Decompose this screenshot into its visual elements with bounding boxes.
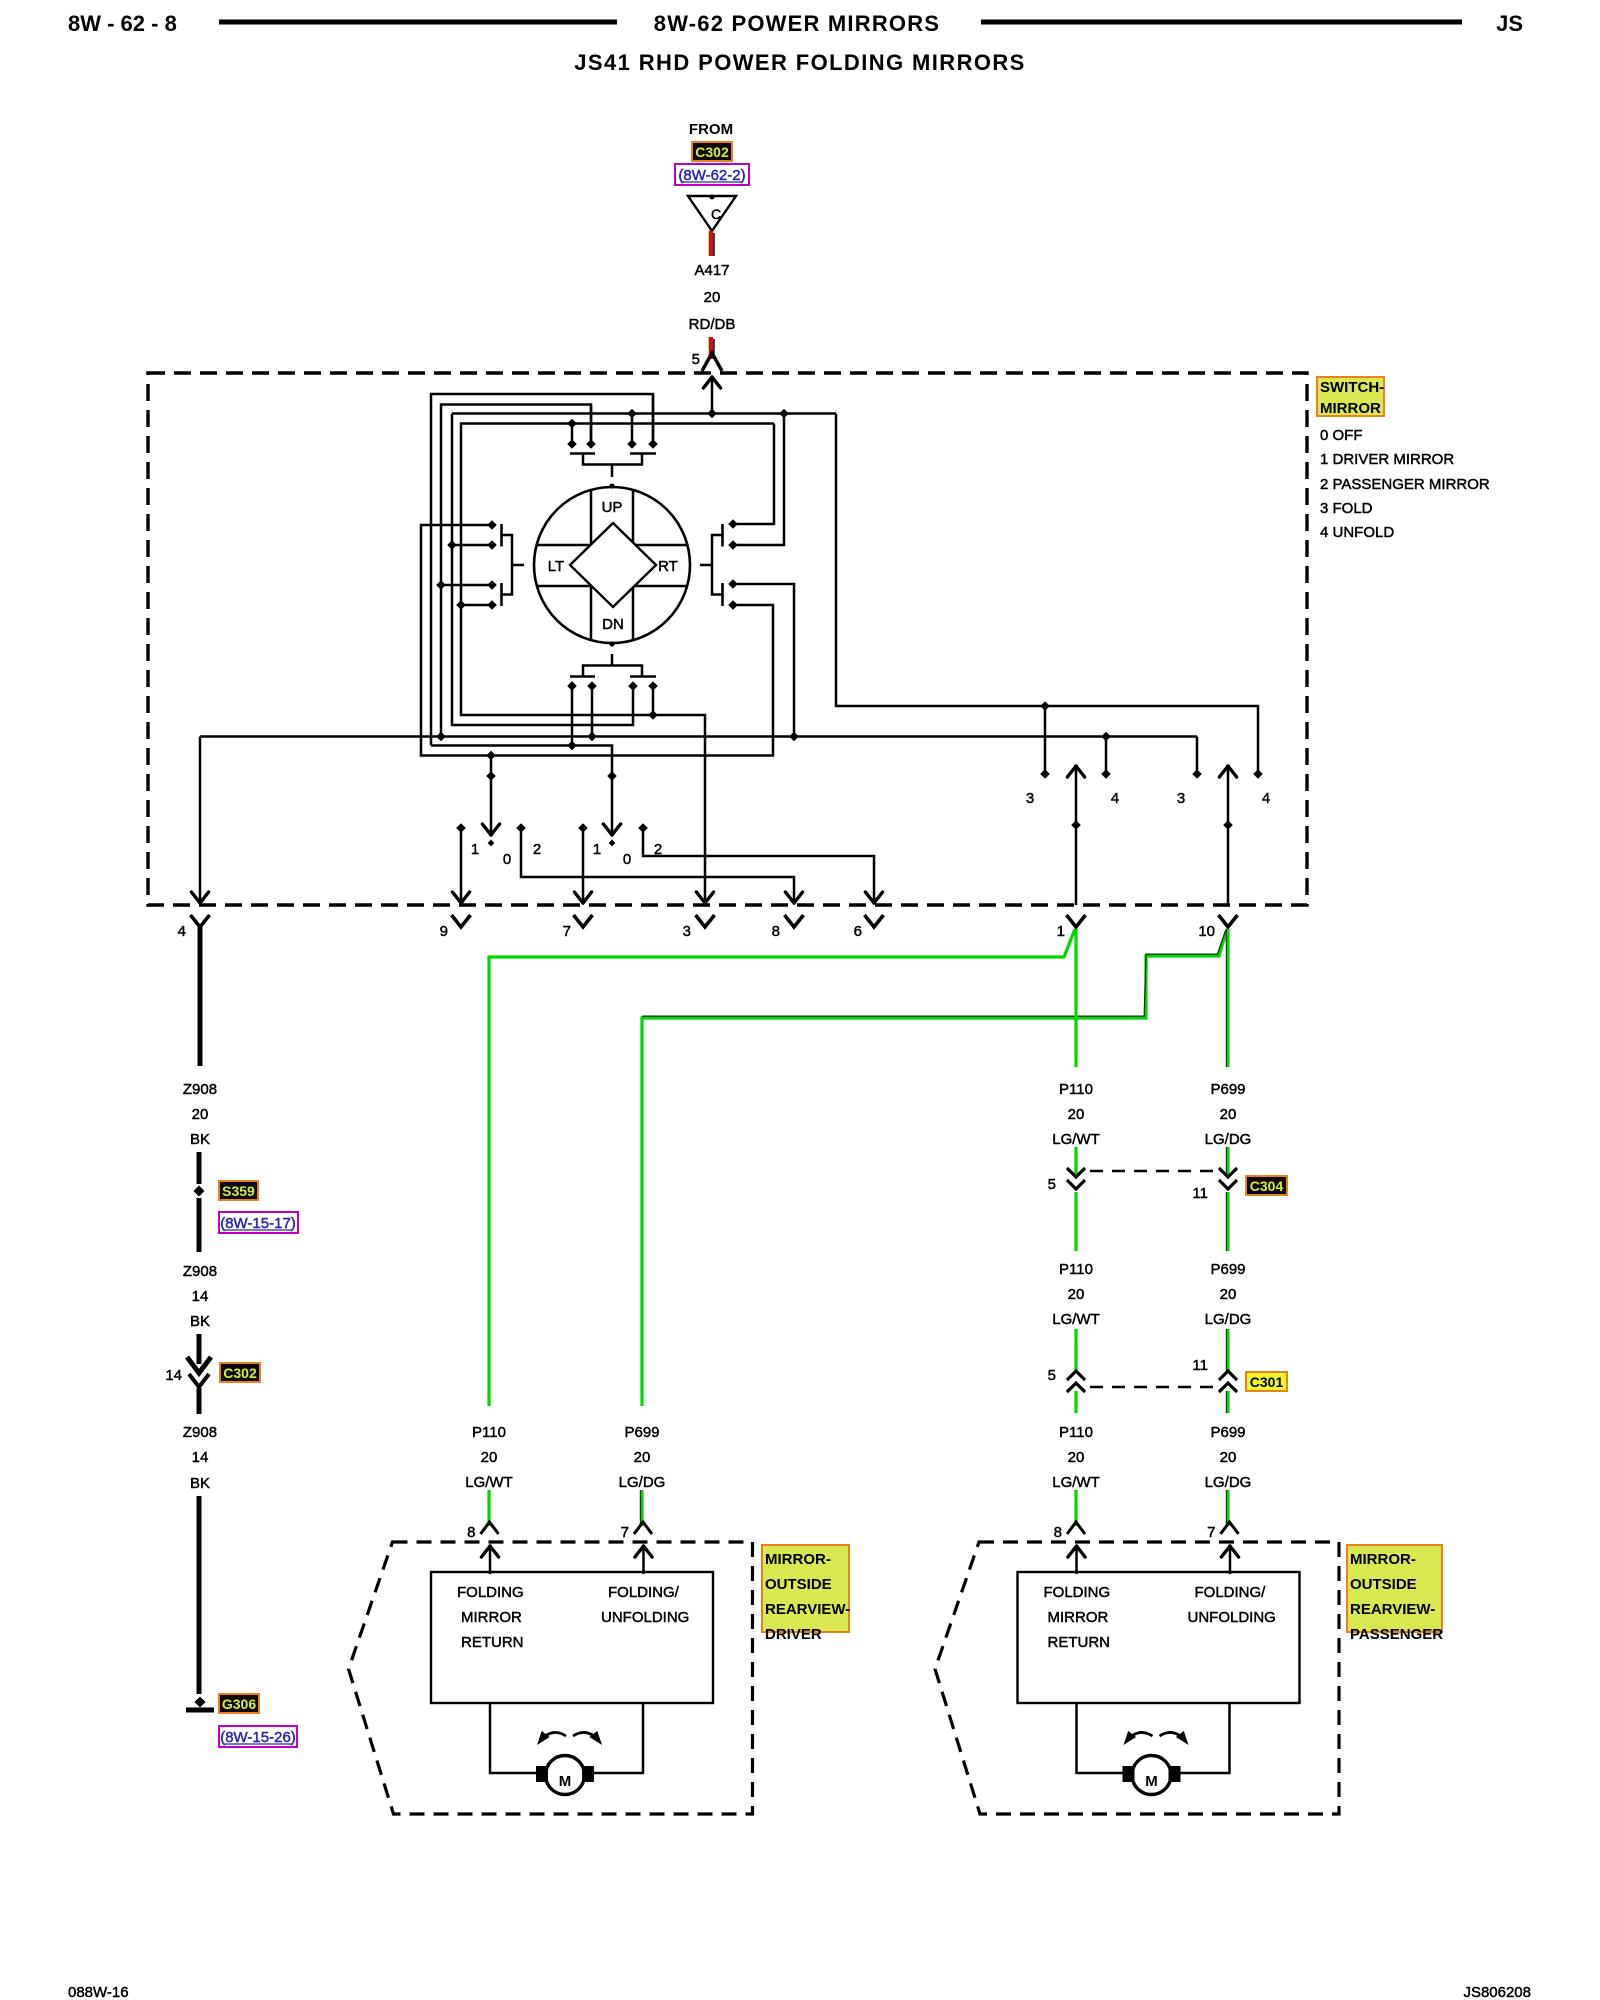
svg-text:7: 7 [1207, 1524, 1215, 1541]
svg-text:2: 2 [654, 841, 662, 858]
pin 7 entry arrow [1229, 1546, 1232, 1574]
wire Z908 thick black from pin 4 [198, 927, 203, 1066]
left contact stub 3 wire [441, 584, 492, 587]
svg-text:MIRROR: MIRROR [461, 1609, 522, 1626]
reference link (8W-15-17) [219, 1212, 298, 1233]
pin 8 entry arrow [489, 1546, 492, 1574]
svg-text:2 PASSENGER MIRROR: 2 PASSENGER MIRROR [1320, 476, 1490, 493]
selector position contact 2b / pin 6 wire [643, 830, 874, 903]
svg-text:UNFOLDING: UNFOLDING [1188, 1609, 1276, 1626]
label MIRROR-OUTSIDE REARVIEW-PASSENGER [1347, 1545, 1442, 1632]
wire Z908 segment 2 [197, 1152, 202, 1184]
svg-text:FROM: FROM [689, 121, 733, 138]
svg-text:OUTSIDE: OUTSIDE [1350, 1576, 1417, 1593]
mirror function box [1018, 1572, 1300, 1703]
wire P110 LG/WT from pin 1 to driver mirror [489, 929, 1075, 1406]
wire Z908 segment 4 with connector C302 [197, 1334, 202, 1364]
wire P110 passenger column segments [1074, 929, 1077, 1067]
connector C304 [1067, 1168, 1085, 1177]
selector position contact 1 / pin 9 wire [460, 830, 463, 903]
svg-text:8: 8 [772, 923, 780, 940]
wire P699 LG/DG driver lower segment [640, 1490, 643, 1526]
svg-text:UNFOLDING: UNFOLDING [601, 1609, 689, 1626]
svg-text:C304: C304 [1250, 1178, 1284, 1194]
rotation arrows [540, 1732, 566, 1741]
svg-text:3: 3 [683, 923, 691, 940]
reference link (8W-15-26) [219, 1726, 297, 1747]
svg-text:088W-16: 088W-16 [68, 1984, 129, 2000]
motor wires [490, 1703, 538, 1773]
pin 8 connector chevron [481, 1522, 499, 1534]
svg-text:JS806208: JS806208 [1463, 1984, 1531, 2000]
wire A417 RD/DB upper red segment [709, 231, 714, 256]
pin 8 connector chevron [1067, 1522, 1085, 1534]
svg-text:0 OFF: 0 OFF [1320, 427, 1363, 444]
svg-text:14: 14 [165, 1367, 182, 1384]
motor M [1132, 1756, 1171, 1795]
svg-text:20: 20 [1220, 1106, 1237, 1123]
svg-text:4: 4 [1262, 790, 1270, 807]
bottom stub b wire [591, 688, 594, 737]
svg-text:LG/WT: LG/WT [1052, 1311, 1100, 1328]
pin 1 riser with up arrow [1075, 766, 1078, 905]
selector position contact 1 / pin 7 wire [582, 830, 585, 903]
svg-text:11: 11 [1192, 1357, 1208, 1374]
svg-text:20: 20 [192, 1106, 209, 1123]
right contact group stem and bracket [700, 564, 712, 567]
switch pin 4 connector [191, 915, 210, 927]
rotation arrows [1127, 1732, 1153, 1741]
left contact group stem and bracket [512, 564, 524, 567]
svg-text:P699: P699 [1210, 1424, 1245, 1441]
svg-text:Z908: Z908 [183, 1424, 217, 1441]
svg-text:4: 4 [178, 923, 186, 940]
svg-text:MIRROR-: MIRROR- [765, 1551, 831, 1568]
wire net C: pin 5 bus branches [452, 412, 836, 415]
right stub 2 riser [733, 415, 784, 545]
svg-text:BK: BK [190, 1475, 210, 1492]
mirror assembly dashed outline (PASSENGER) [935, 1542, 1339, 1814]
svg-text:OUTSIDE: OUTSIDE [765, 1576, 832, 1593]
svg-text:7: 7 [621, 1524, 629, 1541]
svg-text:M: M [559, 1773, 572, 1790]
switch pin 10 connector [1219, 915, 1238, 927]
net C right drop to 3/4 rail [836, 414, 1258, 772]
wire pin5 entry with up arrow [711, 377, 714, 415]
wire Z908 segment 5 to ground [197, 1496, 202, 1694]
svg-text:0: 0 [503, 851, 511, 868]
svg-text:RETURN: RETURN [1048, 1634, 1111, 1651]
bottom stub d wire [652, 688, 655, 715]
switch pin 3 connector [696, 915, 715, 927]
svg-text:LG/DG: LG/DG [619, 1474, 666, 1491]
svg-text:LG/WT: LG/WT [1052, 1131, 1100, 1148]
circle grid horizontal lines [536, 544, 688, 547]
svg-text:14: 14 [192, 1288, 209, 1305]
svg-text:RT: RT [658, 558, 678, 575]
right contact gate bars [721, 524, 724, 547]
svg-text:RD/DB: RD/DB [689, 316, 736, 333]
switch knob circle [534, 487, 690, 643]
svg-text:1: 1 [1057, 923, 1065, 940]
svg-text:8: 8 [1054, 1524, 1062, 1541]
connector label C302 (mid) [220, 1363, 260, 1382]
header rule right [981, 20, 1462, 25]
svg-text:1: 1 [471, 841, 479, 858]
right stub 1 riser [733, 424, 774, 525]
svg-text:MIRROR: MIRROR [1320, 400, 1381, 417]
svg-text:20: 20 [1068, 1449, 1085, 1466]
svg-text:P699: P699 [624, 1424, 659, 1441]
svg-text:20: 20 [1220, 1449, 1237, 1466]
svg-text:0: 0 [623, 851, 631, 868]
svg-text:20: 20 [1068, 1286, 1085, 1303]
fold contact 3b drop [1196, 737, 1199, 772]
svg-text:PASSENGER: PASSENGER [1350, 1626, 1443, 1643]
svg-text:8W-62 POWER MIRRORS: 8W-62 POWER MIRRORS [654, 11, 940, 36]
bottom contact group stem and bracket [611, 654, 614, 666]
left contact dots [487, 520, 497, 530]
svg-text:P110: P110 [1059, 1261, 1093, 1278]
splice label S359 [219, 1181, 258, 1200]
ground label G306 [219, 1694, 259, 1713]
svg-text:G306: G306 [222, 1696, 256, 1712]
svg-text:JS: JS [1496, 11, 1523, 36]
splice S359 dot [194, 1186, 205, 1197]
switch label SWITCH-MIRROR [1317, 377, 1384, 416]
svg-text:FOLDING: FOLDING [1044, 1584, 1111, 1601]
svg-text:A417: A417 [694, 262, 729, 279]
bottom contact gate bars [570, 675, 595, 678]
switch pin 9 connector [452, 915, 471, 927]
top contact gate bars [570, 452, 595, 455]
svg-text:3 FOLD: 3 FOLD [1320, 500, 1373, 517]
svg-text:6: 6 [854, 923, 862, 940]
switch-mirror dashed enclosure [148, 373, 1307, 905]
pin 7 connector chevron [1221, 1522, 1239, 1534]
svg-text:Z908: Z908 [183, 1081, 217, 1098]
svg-text:UP: UP [602, 499, 623, 516]
connector label C301 [1246, 1372, 1287, 1391]
svg-text:1 DRIVER MIRROR: 1 DRIVER MIRROR [1320, 451, 1454, 468]
svg-text:4 UNFOLD: 4 UNFOLD [1320, 524, 1394, 541]
svg-text:DRIVER: DRIVER [765, 1626, 822, 1643]
pin 4 exit wire [199, 737, 202, 904]
svg-text:MIRROR-: MIRROR- [1350, 1551, 1416, 1568]
svg-text:20: 20 [1220, 1286, 1237, 1303]
connector label C302 (top) [692, 142, 732, 161]
top contact dots [567, 439, 577, 449]
svg-text:REARVIEW-: REARVIEW- [765, 1601, 850, 1618]
wire net E: left stub1 to arrow 1a and right stub4 [421, 525, 773, 756]
off-page connector C triangle [688, 196, 736, 231]
switch pin 6 connector [865, 915, 884, 927]
svg-text:1: 1 [593, 841, 601, 858]
svg-text:11: 11 [1192, 1185, 1208, 1202]
svg-text:S359: S359 [222, 1183, 255, 1199]
svg-text:M: M [1145, 1773, 1158, 1790]
svg-text:P110: P110 [472, 1424, 506, 1441]
pin 10 riser with up arrow [1227, 766, 1230, 905]
header rule left [219, 20, 617, 25]
svg-text:5: 5 [1048, 1176, 1056, 1193]
svg-text:LG/WT: LG/WT [1052, 1474, 1100, 1491]
wire P110 LG/WT driver lower segment [487, 1490, 490, 1526]
svg-text:DN: DN [602, 616, 624, 633]
svg-text:20: 20 [481, 1449, 498, 1466]
svg-text:20: 20 [704, 289, 721, 306]
svg-text:BK: BK [190, 1313, 210, 1330]
left contact stub 4 wire [461, 604, 492, 607]
svg-text:20: 20 [1068, 1106, 1085, 1123]
svg-text:LG/DG: LG/DG [1205, 1131, 1252, 1148]
ground G306 symbol [195, 1697, 206, 1708]
wire P699 LG/DG from pin 10 to passenger drop [642, 929, 1227, 1406]
wire Z908 segment 3 [197, 1198, 202, 1252]
reference link (8W-62-2) [675, 164, 749, 185]
svg-text:FOLDING/: FOLDING/ [1195, 1584, 1267, 1601]
svg-text:8W - 62 - 8: 8W - 62 - 8 [68, 11, 177, 36]
switch pin 7 connector [574, 915, 593, 927]
svg-text:8: 8 [467, 1524, 475, 1541]
svg-text:LG/WT: LG/WT [465, 1474, 513, 1491]
top contact group stem and bracket [611, 465, 614, 478]
fold contact 3a stub [1044, 706, 1047, 771]
svg-text:SWITCH-: SWITCH- [1320, 379, 1384, 396]
wire net B: pin 4 bus [441, 405, 591, 586]
svg-text:2: 2 [533, 841, 541, 858]
circle grid vertical lines [590, 489, 593, 641]
pin 7 entry arrow [642, 1546, 645, 1574]
svg-text:P699: P699 [1210, 1261, 1245, 1278]
svg-text:FOLDING/: FOLDING/ [608, 1584, 680, 1601]
svg-text:BK: BK [190, 1131, 210, 1148]
svg-text:7: 7 [563, 923, 571, 940]
svg-text:9: 9 [440, 923, 448, 940]
svg-text:5: 5 [1048, 1367, 1056, 1384]
wire net D: mirror select rail [461, 424, 774, 904]
wire net A: top rail to arrow 1b [431, 394, 653, 746]
svg-text:5: 5 [692, 351, 700, 368]
connector label C304 [1246, 1176, 1287, 1195]
pin 7 connector chevron [634, 1522, 652, 1534]
connector C301 [1067, 1371, 1085, 1380]
wire bottom stub a to net A rail [571, 688, 574, 746]
svg-text:10: 10 [1198, 923, 1215, 940]
svg-text:P110: P110 [1059, 1081, 1093, 1098]
label MIRROR-OUTSIDE REARVIEW-DRIVER [762, 1545, 849, 1632]
svg-text:C301: C301 [1250, 1374, 1284, 1390]
svg-text:C302: C302 [695, 144, 729, 160]
svg-text:RETURN: RETURN [461, 1634, 524, 1651]
selector diamond [570, 523, 656, 607]
left contact gate bars [500, 524, 503, 547]
svg-text:LG/DG: LG/DG [1205, 1311, 1252, 1328]
svg-text:LT: LT [548, 558, 564, 575]
svg-text:MIRROR: MIRROR [1048, 1609, 1109, 1626]
left contact stub 2 wire [452, 544, 492, 547]
svg-text:P110: P110 [1059, 1424, 1093, 1441]
right stub 3 wire [733, 584, 794, 737]
svg-text:JS41 RHD POWER FOLDING MIRRORS: JS41 RHD POWER FOLDING MIRRORS [574, 50, 1025, 75]
circle top/bottom connection dots [609, 483, 614, 488]
svg-text:C302: C302 [223, 1365, 257, 1381]
wire P699 passenger column segments [1226, 929, 1229, 1067]
mirror assembly dashed outline (DRIVER) [349, 1542, 753, 1814]
bottom contact dots [567, 681, 577, 691]
selector position contact 2a / pin 8 wire [521, 830, 794, 903]
svg-text:FOLDING: FOLDING [457, 1584, 524, 1601]
fold contact 4a stub [1105, 737, 1108, 772]
switch pin 8 connector [785, 915, 804, 927]
svg-text:P699: P699 [1210, 1081, 1245, 1098]
svg-text:REARVIEW-: REARVIEW- [1350, 1601, 1435, 1618]
svg-text:4: 4 [1111, 790, 1119, 807]
svg-text:20: 20 [634, 1449, 651, 1466]
pin 4 bus horizontal [200, 735, 1197, 738]
arrow 1a drop [490, 756, 493, 836]
motor M [546, 1756, 585, 1795]
svg-text:3: 3 [1026, 790, 1034, 807]
svg-text:14: 14 [192, 1449, 209, 1466]
svg-text:C: C [711, 206, 721, 222]
wire A417 RD/DB lower red segment [709, 337, 714, 359]
svg-text:3: 3 [1177, 790, 1185, 807]
pin 8 entry arrow [1075, 1546, 1078, 1574]
right contact dots [728, 519, 738, 529]
svg-text:LG/DG: LG/DG [1205, 1474, 1252, 1491]
mirror function box [431, 1572, 713, 1703]
svg-text:Z908: Z908 [183, 1263, 217, 1280]
motor wires [1077, 1703, 1125, 1773]
top contact feed stubs [571, 425, 574, 441]
switch pin 1 connector [1067, 915, 1086, 927]
connector half chevron at pin 5 [702, 353, 722, 371]
